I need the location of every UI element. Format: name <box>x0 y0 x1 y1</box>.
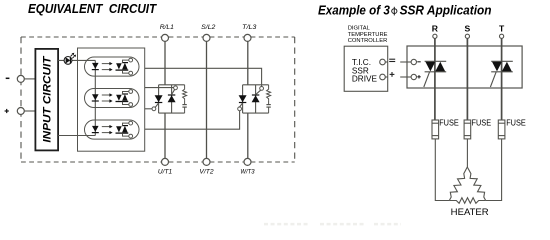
svg-text:DRIVE: DRIVE <box>352 74 378 83</box>
input circuit box <box>35 49 58 150</box>
svg-text:S: S <box>465 24 471 34</box>
fuse F1 <box>432 120 439 139</box>
triac TR2 <box>490 61 512 87</box>
fuse F3 <box>498 120 505 139</box>
SSR module dashed border <box>21 37 295 162</box>
wire plus terminal to input circuit <box>24 110 35 112</box>
svg-text:EQUIVALENT CIRCUIT: EQUIVALENT CIRCUIT <box>28 1 157 16</box>
wire phase R vertical <box>434 38 436 120</box>
wire minus terminal to input circuit <box>24 78 35 80</box>
wire T/L3 phase line <box>247 41 249 158</box>
terminal R <box>433 34 437 38</box>
optocoupler PC1 <box>85 57 140 76</box>
terminal W/T3 <box>244 158 251 165</box>
controller output terminal plus <box>380 74 388 80</box>
svg-text:T: T <box>499 24 505 34</box>
wire fuse F3 to heater <box>486 139 502 201</box>
wire fuse F2 to heater apex <box>466 139 468 167</box>
terminal T <box>500 34 504 38</box>
svg-text:HEATER: HEATER <box>451 207 490 217</box>
faint cropped footer text <box>264 223 401 226</box>
wire phase S vertical <box>466 38 468 120</box>
controller output terminal minus <box>380 59 388 65</box>
terminal V/T2 <box>203 158 210 165</box>
terminal S/L2 <box>203 34 210 41</box>
svg-text:R: R <box>432 24 439 34</box>
wire phase T vertical <box>501 38 503 120</box>
wire LED series string vertical <box>94 60 96 135</box>
label DIGITAL TEMPERTURE CONTROLLER <box>348 26 388 45</box>
svg-text:INPUT CIRCUIT: INPUT CIRCUIT <box>42 55 54 143</box>
terminal DC plus <box>17 108 24 115</box>
node gate G3 <box>238 107 242 111</box>
snubber resistor R1 <box>183 85 187 100</box>
snubber capacitor C2 <box>266 100 270 113</box>
SCR pair block 2 <box>239 85 269 113</box>
wire input circuit return bottom <box>58 135 95 137</box>
heater resistor bottom <box>449 198 485 204</box>
svg-text:SSR Application: SSR Application <box>400 3 492 18</box>
svg-text:DIGITAL: DIGITAL <box>348 26 371 32</box>
node gate G4 <box>260 87 264 91</box>
wire input circuit to LED string top <box>58 59 95 61</box>
triac TR1 <box>424 61 446 87</box>
svg-text:V/T2: V/T2 <box>199 169 213 176</box>
SSR input terminal minus <box>411 59 416 64</box>
wire PC1 to SCR block2 top gate <box>145 68 262 86</box>
heater resistor left <box>449 167 467 201</box>
indicator LED D1 <box>64 53 76 65</box>
wire PC3 to SCR block2 bottom gate <box>145 111 240 130</box>
svg-text:FUSE: FUSE <box>506 117 526 127</box>
label T.I.C. SSR DRIVE <box>352 58 378 83</box>
wire fuse F1 to heater <box>435 139 449 201</box>
terminal S <box>465 34 469 38</box>
optocoupler assembly box <box>78 48 145 151</box>
svg-text:T/L3: T/L3 <box>242 24 256 31</box>
terminal U/T1 <box>162 158 169 165</box>
temperature controller box <box>344 46 388 91</box>
svg-text:S/L2: S/L2 <box>201 24 215 31</box>
SCR pair block 1 <box>155 85 185 113</box>
wire controller to SSR plus <box>400 76 411 78</box>
title Example of 3-phase SSR Application <box>318 3 492 18</box>
terminal DC minus <box>17 75 24 82</box>
label minus input <box>6 77 10 79</box>
heater resistor right <box>467 167 485 201</box>
polarity mark equals <box>389 59 395 61</box>
svg-text:U/T1: U/T1 <box>158 169 172 176</box>
optocoupler PC2 <box>85 88 140 107</box>
SSR block box <box>407 46 522 88</box>
wire PC2 to SCR block1 bottom gate <box>145 108 152 110</box>
polarity mark plus <box>390 72 395 77</box>
label plus at SSR input <box>417 75 420 78</box>
fuse F2 <box>464 120 471 139</box>
svg-text:TEMPERTURE: TEMPERTURE <box>348 32 388 38</box>
terminal R/L1 <box>162 34 169 41</box>
optocoupler PC3 <box>85 120 140 139</box>
snubber capacitor C1 <box>182 100 186 113</box>
svg-text:FUSE: FUSE <box>472 117 492 127</box>
svg-text:R/L1: R/L1 <box>160 24 174 31</box>
label minus at SSR input <box>417 61 420 63</box>
snubber resistor R2 <box>267 85 271 100</box>
terminal T/L3 <box>244 34 251 41</box>
node gate G2 <box>174 86 178 90</box>
wire PC2 to SCR block1 top gate <box>145 87 174 89</box>
svg-text:FUSE: FUSE <box>439 117 459 127</box>
svg-text:W/T3: W/T3 <box>240 169 254 176</box>
svg-text:Example of 3: Example of 3 <box>318 3 390 18</box>
svg-text:CONTROLLER: CONTROLLER <box>348 38 388 44</box>
node gate G1 <box>152 107 156 111</box>
wire S/L2 phase line <box>206 41 208 158</box>
wire controller to SSR minus <box>400 61 411 63</box>
label plus input <box>5 109 9 113</box>
SSR input terminal plus <box>411 74 416 79</box>
wire R/L1 phase line <box>164 41 166 158</box>
